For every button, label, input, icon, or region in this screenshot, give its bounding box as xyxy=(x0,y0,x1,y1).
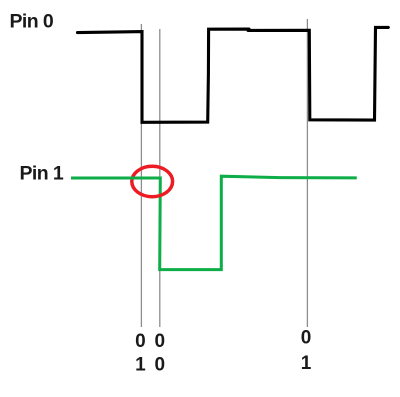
red ellipse highlight xyxy=(132,166,173,196)
grid line T3 xyxy=(306,19,308,327)
svg-text:0: 0 xyxy=(301,328,312,349)
svg-text:1: 1 xyxy=(135,355,146,376)
svg-text:0: 0 xyxy=(155,355,166,376)
Pin 0 waveform (black) xyxy=(78,27,389,122)
Pin 1 waveform (green) xyxy=(71,176,357,269)
grid line T1 xyxy=(140,24,142,327)
grid line T2 xyxy=(159,29,161,327)
svg-text:0: 0 xyxy=(135,331,146,352)
Pin 1 high segment overlay (green drawn over red ellipse) xyxy=(71,177,160,180)
svg-text:Pin 1: Pin 1 xyxy=(20,163,64,185)
svg-text:Pin 0: Pin 0 xyxy=(10,11,54,33)
svg-text:1: 1 xyxy=(301,353,312,374)
svg-text:0: 0 xyxy=(155,331,166,352)
